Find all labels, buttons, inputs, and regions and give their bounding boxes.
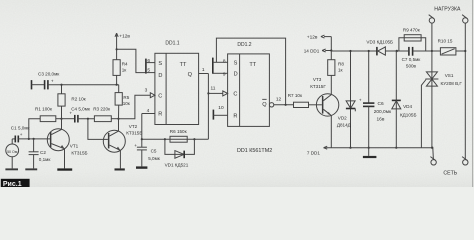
svg-text:R1 100к: R1 100к xyxy=(35,107,53,112)
flip-flop DD1.2 xyxy=(228,42,270,126)
resistor R1 100к xyxy=(29,107,62,139)
common tick (DD1.1 pins 6,5) xyxy=(145,59,147,74)
svg-text:S: S xyxy=(234,60,238,66)
svg-text:VT2: VT2 xyxy=(129,124,138,129)
capacitor C7 0,5мк 500в xyxy=(402,47,422,69)
resistor R6 150к xyxy=(170,129,188,142)
page edge line right xyxy=(472,0,474,187)
resistor R5 10к xyxy=(115,85,131,119)
wire C1 to VT1 base xyxy=(18,138,50,140)
diode VD4 КД105Б xyxy=(392,51,417,148)
svg-text:500в: 500в xyxy=(406,63,417,68)
svg-text:R: R xyxy=(233,113,237,119)
node VD1 left xyxy=(164,138,166,140)
node VD2 bottom xyxy=(349,147,351,149)
svg-text:0,1мк: 0,1мк xyxy=(39,157,52,162)
svg-text:12: 12 xyxy=(276,97,282,103)
svg-text:R8: R8 xyxy=(338,62,344,67)
wire DD1.2 S,D feedback to VT3 base node xyxy=(216,38,285,105)
svg-text:+12в: +12в xyxy=(307,34,318,40)
node НАГРУЗКА/triac top xyxy=(431,50,433,52)
svg-text:4: 4 xyxy=(147,108,150,114)
resistor R4 1к xyxy=(113,60,128,85)
paper background xyxy=(0,0,474,187)
svg-text:C3 20,0мк: C3 20,0мк xyxy=(38,72,60,77)
node R1/base junction xyxy=(28,138,30,140)
svg-text:TT: TT xyxy=(249,62,256,68)
pin 11 C DD1.2 dynamic input xyxy=(211,85,228,96)
common tick (DD1.2 pins 8,9) xyxy=(212,58,214,74)
svg-text:C: C xyxy=(233,91,237,97)
svg-text:КТ315Б: КТ315Б xyxy=(126,130,142,135)
node VD4 bottom xyxy=(395,147,397,149)
svg-text:+: + xyxy=(134,143,137,148)
svg-text:VD4: VD4 xyxy=(403,104,412,109)
svg-text:+: + xyxy=(359,97,362,102)
svg-text:C5: C5 xyxy=(151,149,157,154)
ground (microphone) xyxy=(5,168,18,170)
capacitor C2 0,1мк xyxy=(29,139,52,169)
pin 9 D DD1.2 xyxy=(213,71,228,77)
node VT1 collector junction xyxy=(60,118,62,120)
svg-text:Д814Д: Д814Д xyxy=(337,123,352,128)
node C6 bottom xyxy=(368,147,370,149)
svg-text:VT1: VT1 xyxy=(70,143,79,148)
svg-text:10к: 10к xyxy=(123,101,131,106)
svg-text:DD1.1: DD1.1 xyxy=(165,41,179,47)
resistor R10 15 xyxy=(438,38,466,55)
microphone BM1 50 Ом xyxy=(6,139,19,169)
svg-text:8: 8 xyxy=(223,58,226,64)
capacitor C3 20,0мк xyxy=(32,72,61,90)
node triac bottom / СЕТЬ left xyxy=(431,147,433,149)
wire to VT2 base xyxy=(88,119,108,140)
ground (VT1 emitter) xyxy=(57,168,72,170)
pin 8 S DD1.2 xyxy=(213,58,228,64)
node R2 top on supply rail xyxy=(60,84,62,86)
svg-text:50 Ом: 50 Ом xyxy=(7,150,18,154)
svg-text:НАГРУЗКА: НАГРУЗКА xyxy=(434,6,461,12)
svg-text:СЕТЬ: СЕТЬ xyxy=(443,170,457,176)
svg-text:16в: 16в xyxy=(377,116,385,122)
svg-text:R5: R5 xyxy=(123,95,129,100)
svg-text:Рис.1: Рис.1 xyxy=(3,181,22,187)
svg-text:R9 470к: R9 470к xyxy=(403,27,421,32)
node VT3 base / feedback junction xyxy=(285,104,287,106)
svg-text:КТ315Г: КТ315Г xyxy=(310,84,326,89)
wire +12v to DD1.1 S,D pins xyxy=(117,49,146,72)
common tick (C3 left) xyxy=(31,80,33,89)
node C6 top xyxy=(368,50,370,52)
node VT2 base drop xyxy=(87,118,89,120)
svg-text:VT3: VT3 xyxy=(313,77,322,82)
pin 3 C DD1.1 dynamic input xyxy=(145,88,155,98)
svg-text:Q: Q xyxy=(262,102,267,108)
svg-text:VD1 КД521: VD1 КД521 xyxy=(165,162,189,167)
pin 6 S DD1.1 xyxy=(146,58,155,64)
common tick (DD1.2 pin 10) xyxy=(212,110,214,120)
transistor VT1 КТ315Б xyxy=(47,119,87,169)
node Q1 to pin 11 xyxy=(207,92,209,94)
wire DD1.1 R pin to C5 node xyxy=(141,114,143,140)
svg-text:Q: Q xyxy=(188,72,193,78)
capacitor C4 5,0мк xyxy=(69,107,94,123)
svg-text:R7 10к: R7 10к xyxy=(288,93,303,98)
svg-text:R4: R4 xyxy=(122,62,128,67)
pin 12 Q-bar output DD1.2 with inversion bubble xyxy=(269,97,293,107)
wire +12v down to R8 xyxy=(330,37,332,60)
svg-text:6: 6 xyxy=(147,58,150,64)
terminal СЕТЬ left xyxy=(430,148,436,165)
node VD2 top xyxy=(349,50,351,52)
svg-text:1: 1 xyxy=(202,67,205,73)
+12v supply arrow (left) xyxy=(115,33,130,60)
svg-text:VD3 КД105Б: VD3 КД105Б xyxy=(366,40,393,45)
ground (VT2 emitter) xyxy=(115,168,125,170)
svg-text:DD1 К561ТМ2: DD1 К561ТМ2 xyxy=(237,148,272,154)
svg-text:R2 10к: R2 10к xyxy=(71,97,86,102)
svg-text:+: + xyxy=(20,132,23,137)
node VD1 right xyxy=(193,138,195,140)
ground symbol (common) xyxy=(363,148,377,158)
diode VD3 КД105Б xyxy=(366,40,396,56)
node +12v branch xyxy=(116,48,118,50)
svg-text:10: 10 xyxy=(218,105,224,111)
svg-text:C7 0,5мк: C7 0,5мк xyxy=(402,57,422,62)
svg-text:+12в: +12в xyxy=(119,34,130,40)
wire common rail bottom xyxy=(307,146,432,155)
terminal НАГРУЗКА right xyxy=(462,15,468,160)
pin 4 R DD1.1 xyxy=(142,108,155,114)
resistor R9 470к xyxy=(399,27,426,51)
svg-text:R10 15: R10 15 xyxy=(438,38,453,43)
capacitor C6 200,0мк 16в xyxy=(359,51,392,148)
wire amplifier supply rail xyxy=(48,84,119,86)
svg-text:C: C xyxy=(158,93,162,99)
svg-text:TT: TT xyxy=(180,62,187,68)
svg-text:C4 5,0мк: C4 5,0мк xyxy=(71,107,91,112)
node C5 / R pin xyxy=(141,138,143,140)
svg-text:14 DD1: 14 DD1 xyxy=(304,49,320,54)
transistor VT2 КТ315Б xyxy=(103,119,142,169)
wire to pin 11 xyxy=(208,92,223,94)
ground (C2) xyxy=(25,168,37,170)
node C2/base junction xyxy=(33,138,35,140)
svg-text:D: D xyxy=(234,71,238,77)
triac VS1 КУ208 xyxy=(425,51,462,147)
ground (C5) xyxy=(136,166,147,168)
svg-text:S: S xyxy=(158,61,162,67)
svg-text:КД105Б: КД105Б xyxy=(400,113,416,118)
wire Q1 down xyxy=(207,74,209,140)
terminal НАГРУЗКА left xyxy=(429,15,435,51)
svg-text:КУ208 В,Г: КУ208 В,Г xyxy=(441,81,463,86)
wire Q1 to R6 node xyxy=(142,138,209,140)
svg-text:R3 220к: R3 220к xyxy=(93,107,111,112)
+12v supply arrow (right) xyxy=(307,34,332,40)
svg-text:200,0мк: 200,0мк xyxy=(374,109,392,115)
wire C4 coupling xyxy=(62,118,75,120)
resistor R8 1к xyxy=(328,60,345,95)
svg-text:VD2: VD2 xyxy=(338,115,347,120)
flip-flop DD1.1 xyxy=(155,41,199,125)
pin 14 DD1 supply stub xyxy=(304,49,332,54)
pin 1 Q output DD1.1 xyxy=(199,67,209,73)
svg-text:R: R xyxy=(158,111,162,117)
svg-text:КТ315Б: КТ315Б xyxy=(71,150,87,155)
figure label Рис.1 xyxy=(1,179,30,188)
svg-text:C6: C6 xyxy=(378,101,384,107)
svg-text:11: 11 xyxy=(211,85,216,91)
diode VD1 КД521 xyxy=(165,139,195,167)
svg-text:3: 3 xyxy=(145,88,148,94)
capacitor C1 5,0мк xyxy=(11,125,31,142)
node +12v rail junction xyxy=(330,49,332,51)
node R4 bottom on rail xyxy=(116,84,118,86)
node R10 right xyxy=(464,50,466,52)
pin 10 R DD1.2 xyxy=(213,105,227,115)
node VT2 collector junction xyxy=(117,118,119,120)
resistor R2 10к xyxy=(58,85,87,119)
svg-text:VS1: VS1 xyxy=(445,73,454,78)
svg-text:+: + xyxy=(51,78,54,83)
capacitor C5 5,0мк xyxy=(134,139,160,166)
zener diode VD2 Д814Д xyxy=(337,51,355,148)
pin 5 D DD1.1 xyxy=(146,67,155,73)
svg-text:D: D xyxy=(158,73,162,79)
svg-text:C2: C2 xyxy=(40,150,46,155)
resistor R7 10к xyxy=(288,93,322,108)
svg-text:9: 9 xyxy=(223,71,226,77)
svg-text:R6 150к: R6 150к xyxy=(170,129,188,134)
wire supply line through C7 and R10 xyxy=(396,50,409,52)
svg-text:7 DD1: 7 DD1 xyxy=(307,151,320,156)
wire triac gate xyxy=(421,80,426,148)
resistor R3 220к xyxy=(93,107,118,122)
node VD4/R9 junction xyxy=(396,50,398,52)
svg-text:5,0мк: 5,0мк xyxy=(148,156,161,161)
svg-text:C1 5,0мк: C1 5,0мк xyxy=(11,125,31,130)
transistor VT3 КТ315Г xyxy=(310,77,339,148)
wire +12v rail to VD3 xyxy=(331,50,377,52)
wire VT2 collector to DD1.1 pin 3 xyxy=(119,95,151,119)
svg-text:5: 5 xyxy=(147,67,150,73)
svg-text:DD1.2: DD1.2 xyxy=(237,42,251,48)
terminal СЕТЬ right xyxy=(462,157,468,165)
